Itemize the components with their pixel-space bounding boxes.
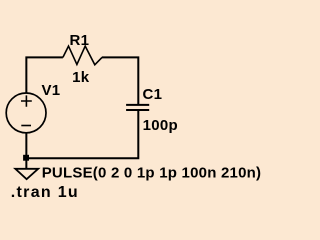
junction node dot [23,155,29,161]
resistor R1 [63,46,102,65]
wire: V1 bottom lead down to ground [25,133,27,169]
capacitor C1 top plate [126,104,149,106]
svg-text:PULSE(0 2 0 1p 1p 100n 210n): PULSE(0 2 0 1p 1p 100n 210n) [42,164,262,181]
svg-text:.tran 1u: .tran 1u [11,184,79,201]
wire: top-right horizontal + right vertical down to capacitor [102,57,139,105]
capacitor C1 bottom plate [126,109,149,111]
V1 plus sign [21,95,32,106]
ground [15,169,38,179]
wire: capacitor bottom lead + bottom horizontal [26,110,138,158]
svg-text:100p: 100p [143,117,178,134]
svg-text:V1: V1 [42,82,61,99]
wire: left vertical + top-left horizontal [26,57,63,93]
svg-text:C1: C1 [143,86,163,103]
voltage source V1 circle [6,93,46,133]
svg-text:1k: 1k [72,69,90,86]
svg-text:R1: R1 [70,32,90,49]
V1 minus sign [21,125,31,127]
